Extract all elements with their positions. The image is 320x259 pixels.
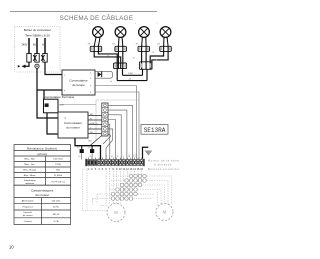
plug pin 1 — [27, 54, 31, 63]
dashed harness verticals — [106, 171, 142, 204]
fan-out wire 7 — [103, 134, 111, 144]
lamp bus wire B — [117, 69, 147, 81]
resistance table — [14, 145, 71, 186]
motor characteristics table — [14, 185, 71, 224]
plug pin 3 — [43, 54, 47, 63]
motor M1 — [107, 204, 125, 222]
wire branch to thermal switch — [43, 90, 45, 99]
thin wire switch pin3 — [95, 86, 136, 160]
dashed branch left — [83, 166, 109, 211]
wire hot to lamp switch pin1 — [45, 62, 62, 74]
fan-out wire 2 — [108, 110, 127, 159]
lamp L2 — [115, 27, 126, 38]
svg-text:120 Volts: 120 Volts — [52, 199, 62, 202]
svg-text:W: W — [112, 155, 114, 157]
wire socket3 pins to junction2 — [142, 46, 147, 69]
socket 2 — [115, 46, 127, 51]
svg-text:240V: 240V — [21, 43, 27, 47]
svg-text:du moteur: du moteur — [66, 126, 80, 130]
fan-out wire 1 — [108, 105, 133, 159]
inline connector 1 — [80, 149, 84, 153]
svg-text:Boutons en option: Boutons en option — [148, 167, 179, 171]
connector housing box (dashed) — [15, 27, 61, 73]
svg-text:Résistance (bobine): Résistance (bobine) — [27, 146, 57, 150]
lamp L4 — [160, 27, 171, 38]
svg-text:Terre NEMA L 6-20: Terre NEMA L 6-20 — [25, 34, 50, 38]
svg-text:du moteur: du moteur — [35, 193, 49, 197]
svg-text:ambiante: ambiante — [25, 182, 35, 185]
svg-text:70,7°F (21°C): 70,7°F (21°C) — [51, 181, 65, 183]
svg-text:Commutateur thermique: Commutateur thermique — [44, 95, 75, 99]
svg-text:N: N — [42, 43, 44, 47]
lamp L1 stem — [94, 37, 100, 46]
junction box 2 — [139, 62, 152, 70]
svg-text:a: a — [135, 23, 136, 25]
inline connector 2 — [90, 149, 94, 153]
motor switch box — [58, 112, 88, 138]
svg-text:a: a — [157, 23, 158, 25]
svg-text:21,5Ω±5: 21,5Ω±5 — [54, 175, 63, 177]
svg-text:SE13RA: SE13RA — [144, 127, 166, 134]
svg-text:3,7 A: 3,7 A — [54, 220, 60, 223]
svg-text:-WH: -WH — [60, 105, 65, 107]
svg-text:de service: de service — [23, 214, 34, 217]
wire neutral spine — [36, 68, 38, 90]
lamp L3 stem — [142, 37, 147, 46]
wires motor switch to terminal strip — [88, 115, 102, 117]
lamp L3 — [139, 27, 150, 38]
wire thermal to enclosure — [58, 104, 96, 106]
svg-text:BU: BU — [89, 141, 92, 143]
plug X mark B — [41, 55, 44, 61]
thin wire switch pin4 — [95, 92, 139, 160]
svg-text:445 W: 445 W — [53, 214, 60, 216]
socket 1 — [90, 46, 102, 51]
socket 4 — [160, 46, 172, 51]
svg-text:Bleu - Noir: Bleu - Noir — [25, 158, 36, 161]
lamp bus wire A — [123, 69, 143, 76]
cell stubs — [88, 158, 141, 160]
svg-text:BL: BL — [33, 43, 37, 47]
svg-text:Fréquence: Fréquence — [22, 206, 33, 209]
bottom connector J1 — [87, 160, 143, 166]
dashed harness horizontals to right motor — [93, 176, 172, 206]
fan-out wire 3 — [108, 115, 121, 160]
svg-text:5,56 Ohm: 5,56 Ohm — [53, 159, 63, 161]
enclosure outline — [96, 100, 140, 141]
wire socket4 pin b to junction2 — [152, 46, 168, 69]
svg-text:10: 10 — [9, 245, 14, 250]
socket labels — [88, 44, 161, 46]
svg-text:Bleu - Blanc: Bleu - Blanc — [24, 175, 37, 177]
wire strip bottom to switch — [90, 136, 102, 146]
svg-text:Caractéristiques: Caractéristiques — [31, 188, 54, 192]
connector end caps — [85, 159, 86, 166]
wire L2 into plug — [36, 38, 38, 54]
plug ground ring — [35, 64, 39, 68]
wire socket2 pins to junction1 — [118, 46, 122, 68]
wire socket1 pin b to junction1 — [94, 46, 121, 68]
svg-text:Intensité: Intensité — [24, 211, 33, 214]
remote arrow — [143, 147, 149, 159]
junction marks — [107, 51, 157, 82]
svg-text:Température: Température — [24, 179, 37, 182]
wire L1 into plug — [28, 38, 30, 54]
svg-text:a: a — [112, 23, 113, 25]
fan-out wire 4 — [108, 120, 116, 160]
svg-text:13,56: 13,56 — [55, 164, 61, 166]
ground dot — [18, 65, 20, 67]
wire thermal to motor switch pin — [47, 113, 58, 134]
connector pin marks — [87, 161, 142, 165]
svg-text:(ohms): (ohms) — [38, 152, 47, 156]
wire spine to lamp switch pin2 — [37, 89, 62, 91]
harness connection rings — [111, 174, 146, 200]
ground arrowhead — [22, 65, 26, 69]
connector pins solid — [87, 160, 89, 164]
pin numbers row — [88, 168, 144, 171]
svg-text:Courant: Courant — [24, 220, 32, 223]
lamp L4 stem — [164, 37, 169, 46]
fan-out wire 6 — [106, 129, 113, 160]
wire spine to motor switch — [37, 90, 58, 118]
wire socket1 pin a to junction1 — [98, 46, 117, 68]
svg-text:Commutateur: Commutateur — [69, 79, 87, 83]
svg-text:Commutateur: Commutateur — [64, 121, 82, 125]
socket 3 — [138, 46, 150, 51]
terminal strip TB1 — [102, 103, 108, 136]
lamp L1 — [93, 27, 104, 38]
fan-out wire 5 — [108, 124, 110, 159]
junction box 1 — [114, 63, 127, 69]
motor M2 — [156, 204, 173, 221]
svg-text:M: M — [114, 210, 118, 215]
svg-text:60 Hz: 60 Hz — [53, 207, 59, 209]
lamp top labels — [89, 23, 158, 25]
svg-text:de lampe: de lampe — [72, 83, 85, 87]
svg-text:à distance: à distance — [154, 163, 172, 167]
LED D1 — [98, 72, 102, 77]
svg-text:Bleu - Gris: Bleu - Gris — [25, 163, 36, 166]
wire N into plug — [44, 38, 46, 54]
header rule — [10, 11, 157, 13]
indicator loop — [95, 71, 113, 78]
lamp switch S1 — [62, 70, 95, 95]
svg-text:a: a — [89, 23, 90, 25]
plug pin 2 — [35, 54, 39, 63]
bold wire motor switch to connector — [75, 138, 101, 160]
wire labels above connector — [106, 154, 138, 157]
model label 5E13RA — [141, 125, 168, 135]
wire socket4 pin a to junction2 — [150, 46, 163, 69]
ground wire — [25, 62, 29, 66]
svg-text:240V: 240V — [128, 73, 134, 75]
plug X mark A — [33, 55, 36, 61]
svg-text:Moteur de la hotte: Moteur de la hotte — [148, 159, 180, 163]
svg-text:Bleu - Rouge: Bleu - Rouge — [23, 170, 37, 172]
svg-text:M: M — [163, 210, 167, 215]
svg-text:Alimentation: Alimentation — [22, 199, 35, 202]
svg-text:Boîtier du connecteur: Boîtier du connecteur — [24, 28, 52, 32]
svg-text:SCHEMA DE CÂBLAGE: SCHEMA DE CÂBLAGE — [60, 13, 134, 22]
thermal switch box — [44, 99, 59, 113]
lamp L2 stem — [118, 37, 122, 46]
